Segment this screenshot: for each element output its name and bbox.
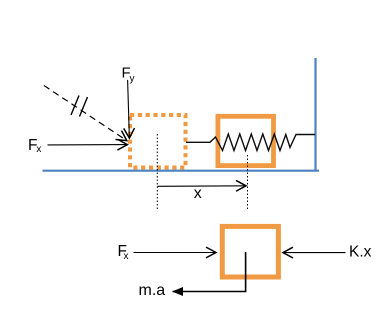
svg-text:m.a: m.a: [139, 282, 166, 299]
svg-text:x: x: [36, 144, 41, 155]
spring (zigzag to wall): [186, 134, 315, 151]
free-body square (lower): [222, 226, 278, 277]
solid square: mass displaced position: [218, 116, 274, 165]
dotted reference line under initial position: [156, 134, 158, 210]
m.a reaction arrow (down then left with solid head): [173, 252, 246, 292]
svg-text:K.x: K.x: [349, 244, 372, 261]
dashed diagonal arrow: [44, 86, 127, 141]
svg-text:y: y: [130, 74, 135, 85]
K.x arrow (pointing left into square): [283, 252, 346, 254]
svg-text:x: x: [124, 251, 129, 262]
Fx arrow (lower, pointing right): [134, 252, 217, 254]
dashed square: mass initial position: [130, 115, 186, 168]
svg-text:x: x: [194, 185, 202, 202]
displacement x arrow: [158, 185, 247, 188]
Fy arrow (vertical, pointing down): [128, 80, 130, 138]
dotted reference line under displaced position: [247, 155, 249, 210]
double slash tick 1 on diagonal: [71, 96, 79, 116]
floor (blue ground line): [43, 170, 320, 172]
wall (blue vertical line): [314, 58, 316, 172]
double slash tick 2 on diagonal: [80, 97, 88, 117]
Fx arrow (upper, pointing right): [48, 144, 128, 146]
